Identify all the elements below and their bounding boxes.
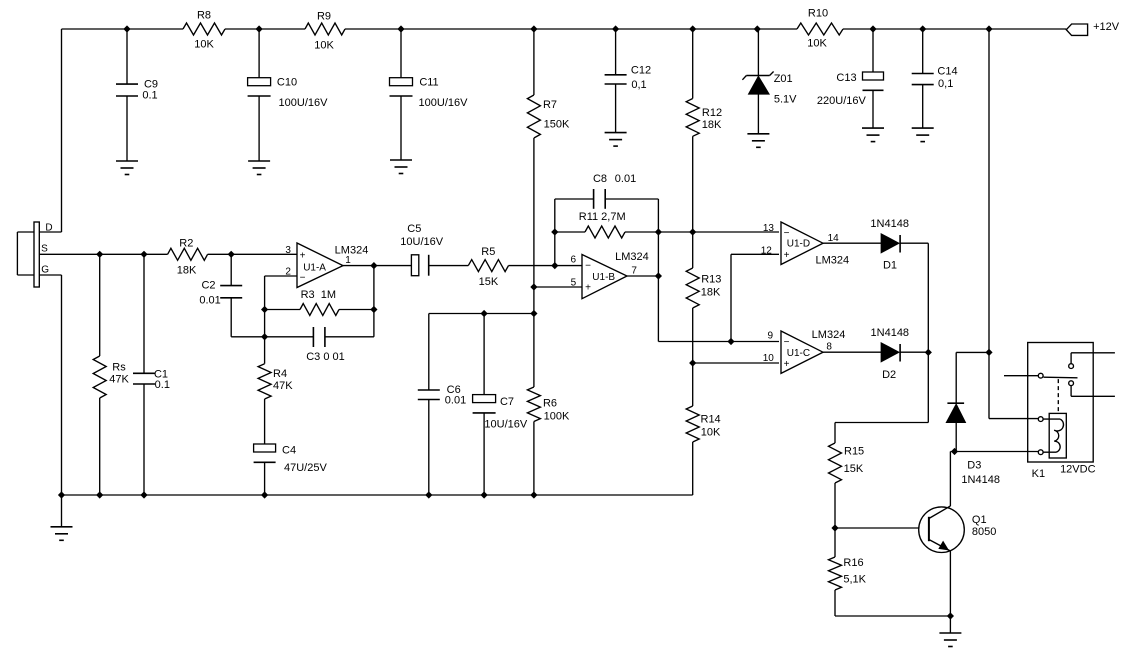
svg-text:18K: 18K [701,287,721,299]
svg-text:18K: 18K [702,119,722,131]
svg-text:C3 0 01: C3 0 01 [306,351,345,363]
svg-text:6: 6 [571,254,577,265]
svg-text:U1-B: U1-B [592,272,615,283]
svg-text:S: S [41,243,48,254]
svg-text:0.1: 0.1 [155,379,170,391]
svg-text:5,1K: 5,1K [843,574,866,586]
svg-text:R8: R8 [197,10,211,22]
svg-text:LM324: LM324 [815,254,849,266]
svg-text:−: − [784,228,790,239]
svg-text:R11 2,7M: R11 2,7M [579,211,626,223]
svg-text:C11: C11 [419,77,438,89]
svg-text:+: + [300,251,306,262]
svg-text:14: 14 [828,233,840,244]
svg-text:3: 3 [285,245,291,256]
svg-text:15K: 15K [479,276,499,288]
svg-text:10U/16V: 10U/16V [400,236,443,248]
svg-text:R10: R10 [808,8,828,20]
svg-text:0.01: 0.01 [615,173,636,185]
svg-text:47K: 47K [109,373,129,385]
svg-text:R3 1M: R3 1M [301,289,336,301]
svg-text:D2: D2 [882,369,896,381]
svg-text:150K: 150K [544,118,570,130]
svg-text:13: 13 [763,223,775,234]
svg-text:220U/16V: 220U/16V [817,95,867,107]
svg-text:−: − [585,261,591,272]
svg-text:LM324: LM324 [335,245,369,257]
svg-text:U1-A: U1-A [303,262,326,273]
svg-text:10K: 10K [194,39,214,51]
svg-text:1N4148: 1N4148 [871,327,910,339]
svg-text:R2: R2 [179,238,193,250]
svg-text:0.1: 0.1 [142,90,157,102]
svg-text:R13: R13 [701,274,721,286]
svg-text:+12V: +12V [1093,21,1120,33]
svg-text:7: 7 [631,266,637,277]
svg-text:0,1: 0,1 [631,79,646,91]
svg-text:U1-C: U1-C [787,348,810,359]
svg-text:100U/16V: 100U/16V [279,97,329,109]
svg-text:R6: R6 [543,397,557,409]
svg-text:LM324: LM324 [615,251,649,263]
svg-text:R7: R7 [543,99,557,111]
svg-text:R15: R15 [844,445,864,457]
svg-text:10K: 10K [701,427,721,439]
svg-text:K1: K1 [1032,468,1045,480]
svg-text:9: 9 [768,330,774,341]
svg-text:C2: C2 [201,280,215,292]
svg-text:C14: C14 [937,65,957,77]
svg-text:100U/16V: 100U/16V [419,97,469,109]
svg-text:Z01: Z01 [774,73,793,85]
svg-text:LM324: LM324 [812,329,846,341]
svg-text:1N4148: 1N4148 [961,474,1000,486]
svg-text:R14: R14 [701,414,721,426]
svg-text:8: 8 [826,341,832,352]
svg-text:R5: R5 [481,246,495,258]
svg-text:D: D [45,223,52,234]
svg-text:10K: 10K [314,40,334,52]
svg-text:100K: 100K [544,410,570,422]
svg-text:10K: 10K [807,38,827,50]
svg-text:1N4148: 1N4148 [870,218,909,230]
svg-text:0,1: 0,1 [938,78,953,90]
svg-text:R12: R12 [702,107,722,119]
svg-text:D1: D1 [883,259,897,271]
svg-text:47U/25V: 47U/25V [284,462,327,474]
svg-text:−: − [300,273,306,284]
svg-text:C7: C7 [500,396,514,408]
svg-text:C10: C10 [277,77,297,89]
svg-text:0.01: 0.01 [445,395,466,407]
svg-text:15K: 15K [844,463,864,475]
svg-text:C4: C4 [282,445,296,457]
svg-text:R16: R16 [843,557,863,569]
svg-text:R4: R4 [273,368,287,380]
svg-text:18K: 18K [177,264,197,276]
svg-text:Q1: Q1 [972,514,987,526]
svg-text:+: + [784,250,790,261]
svg-text:10U/16V: 10U/16V [484,418,527,430]
svg-text:G: G [41,265,49,276]
svg-text:C12: C12 [631,65,651,77]
svg-text:U1-D: U1-D [787,239,810,250]
svg-text:47K: 47K [273,380,293,392]
svg-text:+: + [784,359,790,370]
svg-text:Rs: Rs [112,361,126,373]
svg-text:+: + [585,283,591,294]
svg-text:10: 10 [763,353,775,364]
svg-text:C5: C5 [407,223,421,235]
svg-text:D3: D3 [967,460,981,472]
svg-text:12: 12 [761,245,773,256]
svg-text:1: 1 [345,255,351,266]
svg-text:R9: R9 [317,11,331,23]
svg-text:12VDC: 12VDC [1060,464,1096,476]
svg-text:8050: 8050 [972,526,996,538]
svg-text:−: − [784,337,790,348]
svg-text:5.1V: 5.1V [774,93,797,105]
svg-text:C8: C8 [593,173,607,185]
svg-text:C13: C13 [836,72,856,84]
svg-text:0.01: 0.01 [199,295,220,307]
